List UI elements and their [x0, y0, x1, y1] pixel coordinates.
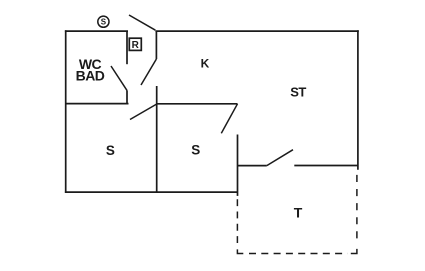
terrace dashed corner bottom-left	[237, 249, 243, 253]
svg-text:K: K	[201, 57, 210, 71]
svg-text:R: R	[132, 40, 140, 51]
wall terrace left	[238, 165, 267, 167]
door leaf S1	[130, 104, 157, 120]
svg-text:S: S	[191, 143, 200, 158]
door leaf S2	[221, 104, 237, 134]
wall terrace right	[294, 165, 358, 167]
svg-text:ST: ST	[290, 85, 306, 100]
symbol S circle	[98, 16, 109, 27]
wall right outer	[357, 30, 359, 170]
wall bottom outer	[65, 191, 238, 193]
wall WC right upper jamb	[126, 31, 128, 64]
wall K-S2	[157, 103, 238, 105]
svg-text:BAD: BAD	[76, 67, 105, 83]
symbol R box	[129, 38, 141, 51]
terrace dashed corner bottom-right	[351, 249, 357, 254]
wall WC bottom	[66, 103, 129, 105]
door leaf entry	[129, 15, 155, 30]
door leaf terrace	[267, 150, 293, 166]
wall left outer	[65, 30, 67, 193]
wall S2 right	[237, 135, 239, 196]
wall top-left segment	[65, 30, 128, 32]
wire wall top-right segment	[155, 30, 358, 32]
terrace dashed right	[356, 175, 358, 244]
svg-text:S: S	[106, 143, 115, 158]
svg-text:T: T	[294, 205, 303, 221]
door leaf WC	[111, 66, 127, 90]
door leaf K	[141, 59, 156, 85]
wall S divider	[156, 86, 158, 192]
wall K door jamb	[155, 31, 157, 59]
wall WC right lower jamb	[126, 90, 128, 104]
terrace dashed left	[236, 199, 238, 246]
terrace dashed bottom	[249, 253, 348, 255]
svg-text:S: S	[101, 18, 107, 27]
